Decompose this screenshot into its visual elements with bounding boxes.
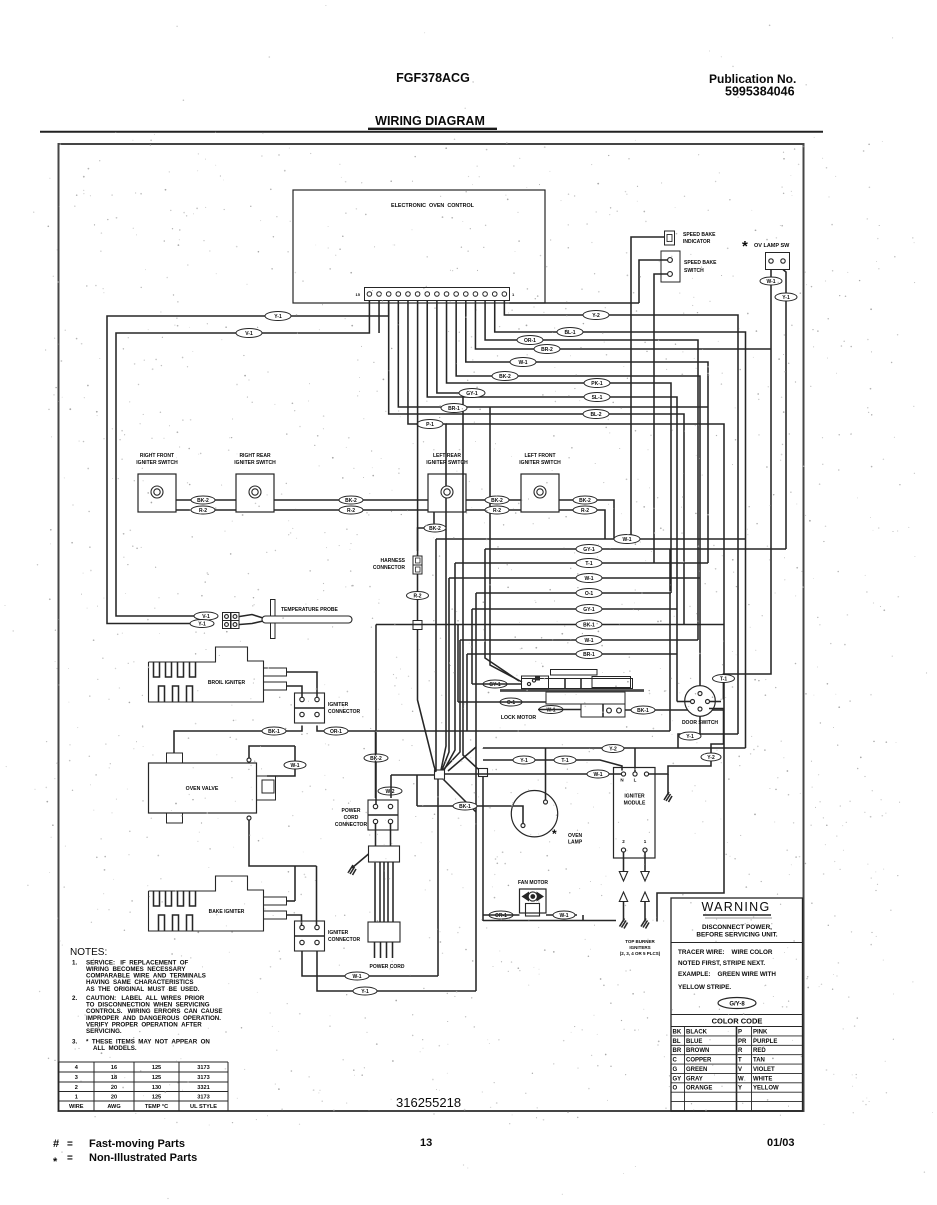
svg-text:G/Y-8: G/Y-8 bbox=[729, 1002, 745, 1008]
svg-text:(2, 3, 4 OR 5 PLCS): (2, 3, 4 OR 5 PLCS) bbox=[620, 951, 661, 956]
svg-text:T-1: T-1 bbox=[561, 758, 568, 764]
svg-text:BL-1: BL-1 bbox=[564, 330, 575, 336]
svg-text:IGNITER: IGNITER bbox=[624, 794, 645, 800]
svg-text:Y: Y bbox=[738, 1086, 742, 1092]
svg-text:LEFT REAR: LEFT REAR bbox=[433, 453, 461, 459]
svg-text:*: * bbox=[742, 238, 748, 255]
svg-text:W-1: W-1 bbox=[593, 772, 602, 778]
svg-text:Y-2: Y-2 bbox=[592, 313, 600, 319]
svg-text:BROWN: BROWN bbox=[686, 1048, 709, 1054]
svg-text:125: 125 bbox=[152, 1065, 161, 1071]
svg-text:W-1: W-1 bbox=[622, 537, 631, 543]
svg-text:01/03: 01/03 bbox=[767, 1137, 795, 1149]
svg-text:IGNITER SWITCH: IGNITER SWITCH bbox=[519, 460, 561, 466]
svg-text:W-2: W-2 bbox=[385, 789, 394, 795]
svg-text:NOTES:: NOTES: bbox=[70, 947, 107, 958]
svg-text:R-2: R-2 bbox=[493, 508, 501, 514]
svg-text:BK-2: BK-2 bbox=[499, 374, 511, 380]
svg-text:BR: BR bbox=[673, 1048, 682, 1054]
svg-text:BLACK: BLACK bbox=[686, 1029, 708, 1035]
svg-text:NOTED FIRST, STRIPE NEXT.: NOTED FIRST, STRIPE NEXT. bbox=[678, 960, 765, 967]
svg-text:IGNITER: IGNITER bbox=[328, 702, 349, 708]
svg-text:TAN: TAN bbox=[753, 1058, 765, 1064]
svg-text:Y-1: Y-1 bbox=[520, 758, 528, 764]
svg-text:YELLOW STRIPE.: YELLOW STRIPE. bbox=[678, 984, 731, 991]
svg-text:CORD: CORD bbox=[344, 815, 359, 821]
svg-text:1: 1 bbox=[512, 292, 515, 297]
svg-text:Y-1: Y-1 bbox=[198, 621, 206, 627]
svg-text:TOP BURNER: TOP BURNER bbox=[625, 939, 655, 944]
svg-text:Y-1: Y-1 bbox=[782, 295, 790, 301]
svg-text:GREEN: GREEN bbox=[686, 1067, 707, 1073]
svg-text:3173: 3173 bbox=[197, 1075, 209, 1081]
svg-text:IGNITER: IGNITER bbox=[328, 930, 349, 936]
svg-text:WARNING: WARNING bbox=[701, 900, 770, 914]
svg-text:GY-1: GY-1 bbox=[583, 547, 595, 553]
svg-text:V-1: V-1 bbox=[245, 331, 253, 337]
svg-text:SERVICING.: SERVICING. bbox=[86, 1028, 122, 1035]
svg-text:=: = bbox=[67, 1153, 73, 1164]
svg-text:BR-2: BR-2 bbox=[541, 347, 553, 353]
svg-text:GY-1: GY-1 bbox=[583, 607, 595, 613]
svg-text:LAMP: LAMP bbox=[568, 840, 583, 846]
svg-text:BL: BL bbox=[673, 1039, 681, 1045]
svg-text:GY-1: GY-1 bbox=[466, 391, 478, 397]
svg-text:Fast-moving Parts: Fast-moving Parts bbox=[89, 1138, 185, 1150]
svg-text:4: 4 bbox=[75, 1065, 79, 1071]
svg-text:ORANGE: ORANGE bbox=[686, 1086, 712, 1092]
svg-text:IGNITERS: IGNITERS bbox=[629, 945, 650, 950]
svg-text:2.: 2. bbox=[72, 995, 77, 1002]
svg-text:DISCONNECT POWER,: DISCONNECT POWER, bbox=[702, 924, 772, 931]
svg-text:BK-1: BK-1 bbox=[637, 708, 649, 714]
svg-text:3.: 3. bbox=[72, 1039, 77, 1046]
svg-text:BR-1: BR-1 bbox=[448, 406, 460, 412]
svg-text:SPEED BAKE: SPEED BAKE bbox=[683, 232, 716, 238]
svg-text:R-2: R-2 bbox=[347, 508, 355, 514]
svg-text:WIRING DIAGRAM: WIRING DIAGRAM bbox=[375, 114, 485, 128]
svg-text:PURPLE: PURPLE bbox=[753, 1039, 777, 1045]
svg-text:3173: 3173 bbox=[197, 1065, 209, 1071]
svg-text:1: 1 bbox=[75, 1094, 78, 1100]
svg-text:WIRE: WIRE bbox=[69, 1104, 84, 1110]
svg-text:3: 3 bbox=[75, 1075, 78, 1081]
svg-text:YELLOW: YELLOW bbox=[753, 1086, 779, 1092]
svg-text:WHITE: WHITE bbox=[753, 1076, 772, 1082]
svg-text:N: N bbox=[620, 778, 623, 783]
svg-text:INDICATOR: INDICATOR bbox=[683, 239, 711, 245]
svg-text:#: # bbox=[53, 1138, 59, 1150]
svg-text:W-1: W-1 bbox=[766, 279, 775, 285]
svg-text:ALL MODELS.: ALL MODELS. bbox=[93, 1045, 137, 1052]
svg-text:PK-1: PK-1 bbox=[591, 381, 603, 387]
svg-text:Y-1: Y-1 bbox=[361, 989, 369, 995]
svg-text:T-1: T-1 bbox=[585, 561, 592, 567]
svg-text:20: 20 bbox=[111, 1094, 117, 1100]
svg-text:AWG: AWG bbox=[107, 1104, 120, 1110]
svg-text:TRACER WIRE: WIRE COLOR: TRACER WIRE: WIRE COLOR bbox=[678, 949, 773, 956]
svg-text:PR: PR bbox=[738, 1039, 747, 1045]
svg-text:1.: 1. bbox=[72, 960, 77, 967]
svg-text:20: 20 bbox=[111, 1085, 117, 1091]
svg-text:2: 2 bbox=[622, 839, 625, 844]
svg-text:2: 2 bbox=[75, 1085, 78, 1091]
svg-text:BR-1: BR-1 bbox=[583, 652, 595, 658]
svg-text:GY: GY bbox=[673, 1076, 682, 1082]
svg-text:POWER CORD: POWER CORD bbox=[370, 964, 405, 970]
svg-text:BAKE IGNITER: BAKE IGNITER bbox=[209, 909, 245, 915]
svg-text:O: O bbox=[673, 1086, 678, 1092]
svg-text:13: 13 bbox=[420, 1137, 432, 1149]
svg-text:OR-1: OR-1 bbox=[524, 338, 536, 344]
svg-text:W-1: W-1 bbox=[290, 763, 299, 769]
svg-text:W-1: W-1 bbox=[352, 974, 361, 980]
svg-text:AS THE ORIGINAL MUST BE U: AS THE ORIGINAL MUST BE USED. bbox=[86, 986, 200, 993]
svg-text:R-2: R-2 bbox=[199, 508, 207, 514]
svg-text:Y-1: Y-1 bbox=[274, 314, 282, 320]
svg-text:HARNESS: HARNESS bbox=[381, 558, 406, 564]
svg-text:L: L bbox=[634, 778, 637, 783]
svg-text:BL-2: BL-2 bbox=[590, 412, 601, 418]
svg-text:GY-1: GY-1 bbox=[489, 682, 501, 688]
svg-text:LEFT FRONT: LEFT FRONT bbox=[524, 453, 555, 459]
svg-text:Y-2: Y-2 bbox=[707, 755, 715, 761]
svg-text:CONNECTOR: CONNECTOR bbox=[328, 937, 361, 943]
svg-text:POWER: POWER bbox=[342, 808, 361, 814]
svg-text:=: = bbox=[67, 1139, 73, 1150]
svg-text:EXAMPLE: GREEN WIRE WITH: EXAMPLE: GREEN WIRE WITH bbox=[678, 971, 776, 978]
svg-text:OVEN VALVE: OVEN VALVE bbox=[186, 786, 219, 792]
svg-text:BK-2: BK-2 bbox=[491, 498, 503, 504]
svg-text:CONNECTOR: CONNECTOR bbox=[335, 822, 368, 828]
svg-text:W-1: W-1 bbox=[518, 360, 527, 366]
svg-text:RIGHT REAR: RIGHT REAR bbox=[239, 453, 271, 459]
svg-text:W: W bbox=[738, 1076, 744, 1082]
svg-text:BK: BK bbox=[673, 1029, 682, 1035]
svg-text:V: V bbox=[738, 1067, 742, 1073]
svg-text:BK-1: BK-1 bbox=[583, 622, 595, 628]
svg-text:VIOLET: VIOLET bbox=[753, 1067, 775, 1073]
svg-text:SL-1: SL-1 bbox=[592, 395, 603, 401]
svg-text:BK-1: BK-1 bbox=[268, 729, 280, 735]
svg-text:3321: 3321 bbox=[197, 1085, 209, 1091]
svg-text:OR-1: OR-1 bbox=[495, 913, 507, 919]
svg-text:W-1: W-1 bbox=[546, 707, 555, 713]
svg-text:C: C bbox=[673, 1058, 678, 1064]
svg-text:W-1: W-1 bbox=[584, 576, 593, 582]
svg-text:CONNECTOR: CONNECTOR bbox=[373, 565, 406, 571]
svg-text:3173: 3173 bbox=[197, 1094, 209, 1100]
svg-text:SPEED BAKE: SPEED BAKE bbox=[684, 260, 717, 266]
svg-text:Non-Illustrated Parts: Non-Illustrated Parts bbox=[89, 1152, 197, 1164]
svg-text:P-1: P-1 bbox=[426, 422, 434, 428]
svg-text:R-2: R-2 bbox=[413, 593, 421, 599]
svg-text:O-1: O-1 bbox=[507, 700, 516, 706]
svg-text:15: 15 bbox=[356, 292, 361, 297]
svg-text:BK-1: BK-1 bbox=[459, 804, 471, 810]
svg-text:OV LAMP SW: OV LAMP SW bbox=[754, 243, 790, 249]
svg-text:RIGHT FRONT: RIGHT FRONT bbox=[140, 453, 174, 459]
svg-text:16: 16 bbox=[111, 1065, 117, 1071]
svg-text:COPPER: COPPER bbox=[686, 1058, 712, 1064]
svg-text:W-1: W-1 bbox=[584, 638, 593, 644]
svg-text:FGF378ACG: FGF378ACG bbox=[396, 71, 470, 85]
svg-text:130: 130 bbox=[152, 1085, 161, 1091]
svg-text:OR-1: OR-1 bbox=[330, 729, 342, 735]
svg-text:Y-2: Y-2 bbox=[609, 746, 617, 752]
svg-text:IGNITER SWITCH: IGNITER SWITCH bbox=[136, 460, 178, 466]
svg-text:PINK: PINK bbox=[753, 1029, 768, 1035]
svg-text:BK-2: BK-2 bbox=[197, 498, 209, 504]
svg-text:IGNITER SWITCH: IGNITER SWITCH bbox=[426, 460, 468, 466]
svg-text:1: 1 bbox=[644, 839, 647, 844]
svg-text:FAN MOTOR: FAN MOTOR bbox=[518, 880, 548, 886]
svg-text:O-1: O-1 bbox=[585, 591, 594, 597]
svg-text:V-1: V-1 bbox=[202, 614, 210, 620]
svg-text:BLUE: BLUE bbox=[686, 1039, 702, 1045]
svg-text:BK-2: BK-2 bbox=[579, 498, 591, 504]
svg-text:R-2: R-2 bbox=[581, 508, 589, 514]
svg-text:G: G bbox=[673, 1067, 678, 1073]
svg-text:18: 18 bbox=[111, 1075, 117, 1081]
svg-text:MODULE: MODULE bbox=[624, 801, 646, 807]
svg-text:OVEN: OVEN bbox=[568, 833, 583, 839]
svg-text:BEFORE SERVICING UNIT.: BEFORE SERVICING UNIT. bbox=[696, 932, 777, 939]
svg-text:IGNITER SWITCH: IGNITER SWITCH bbox=[234, 460, 276, 466]
svg-text:CONNECTOR: CONNECTOR bbox=[328, 709, 361, 715]
svg-text:ELECTRONIC OVEN CONTROL: ELECTRONIC OVEN CONTROL bbox=[391, 203, 475, 209]
svg-text:GRAY: GRAY bbox=[686, 1076, 703, 1082]
svg-text:*: * bbox=[552, 827, 557, 841]
svg-text:LOCK MOTOR: LOCK MOTOR bbox=[501, 715, 537, 721]
svg-text:TEMP °C: TEMP °C bbox=[145, 1104, 168, 1110]
svg-text:RED: RED bbox=[753, 1048, 766, 1054]
svg-text:125: 125 bbox=[152, 1075, 161, 1081]
svg-text:R: R bbox=[738, 1048, 743, 1054]
svg-text:5995384046: 5995384046 bbox=[725, 85, 795, 99]
svg-text:W-1: W-1 bbox=[559, 913, 568, 919]
svg-text:SWITCH: SWITCH bbox=[684, 268, 704, 274]
svg-text:BK-2: BK-2 bbox=[429, 526, 441, 532]
svg-text:P: P bbox=[738, 1029, 742, 1035]
svg-text:*: * bbox=[53, 1156, 58, 1168]
svg-text:TEMPERATURE PROBE: TEMPERATURE PROBE bbox=[281, 607, 339, 613]
svg-text:BK-2: BK-2 bbox=[345, 498, 357, 504]
svg-text:316255218: 316255218 bbox=[396, 1095, 461, 1110]
svg-text:UL STYLE: UL STYLE bbox=[190, 1104, 217, 1110]
svg-text:T-1: T-1 bbox=[720, 676, 727, 682]
svg-text:Y-1: Y-1 bbox=[686, 734, 694, 740]
svg-text:T: T bbox=[738, 1058, 742, 1064]
